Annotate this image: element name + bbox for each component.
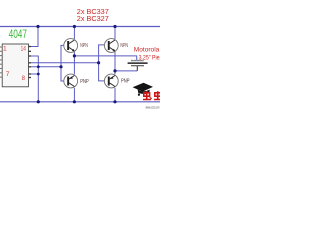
- svg-text:Motorola: Motorola: [134, 47, 160, 54]
- svg-text:NPN: NPN: [120, 43, 128, 49]
- svg-text:PNP: PNP: [121, 78, 130, 84]
- wire pin14 to top rail: [31, 27, 38, 47]
- logo graduation cap: [133, 83, 153, 96]
- svg-text:4047: 4047: [9, 28, 27, 41]
- wire Q2 collector to rail: [114, 27, 116, 40]
- svg-text:7: 7: [6, 71, 10, 78]
- svg-text:2x BC327: 2x BC327: [77, 14, 109, 23]
- wire right bases vertical: [99, 45, 105, 81]
- junction dots: [36, 25, 116, 104]
- wire Q1 emitter to Q3 emitter: [73, 52, 75, 74]
- transistor Q4 PNP BC327: [104, 74, 118, 88]
- wire Q1 collector to rail: [73, 27, 75, 40]
- svg-text:NPN: NPN: [80, 43, 88, 49]
- logo bug character 2: [154, 91, 161, 99]
- svg-text:PNP: PNP: [80, 79, 89, 85]
- wire IC pin to rail column: [31, 73, 39, 75]
- wire right output node to speaker bottom: [115, 70, 137, 72]
- wire left output node to speaker top: [74, 56, 136, 60]
- wire Q3 collector to bottom rail: [73, 88, 75, 102]
- svg-text:3.25" Piez: 3.25" Piez: [139, 54, 160, 61]
- IC U1 4047 body: [2, 44, 28, 87]
- svg-text:www.ccdz.com: www.ccdz.com: [146, 106, 160, 110]
- speaker LS1 piezo plates: [128, 60, 148, 71]
- svg-text:1: 1: [3, 46, 7, 53]
- wire bottom ground rail: [0, 101, 160, 103]
- transistor Q3 PNP BC327: [64, 74, 78, 88]
- transistor Q1 NPN BC337: [64, 39, 78, 53]
- wire Q2 emitter to Q4 emitter: [114, 52, 116, 74]
- IC U1 left pin stubs: [0, 47, 2, 77]
- logo bug character 1: [143, 91, 152, 99]
- wire top supply rail: [0, 26, 160, 28]
- wire left bases vertical: [61, 45, 64, 81]
- wire pin to bottom rail column: [31, 56, 39, 102]
- wire IC output A to right pair bases: [31, 62, 99, 64]
- wire IC output B to left pair bases: [31, 66, 61, 68]
- IC U1 right pin stubs: [29, 47, 32, 78]
- transistor Q2 NPN BC337: [104, 39, 118, 53]
- wire Q4 collector to bottom rail: [114, 88, 116, 102]
- svg-text:14: 14: [21, 46, 27, 53]
